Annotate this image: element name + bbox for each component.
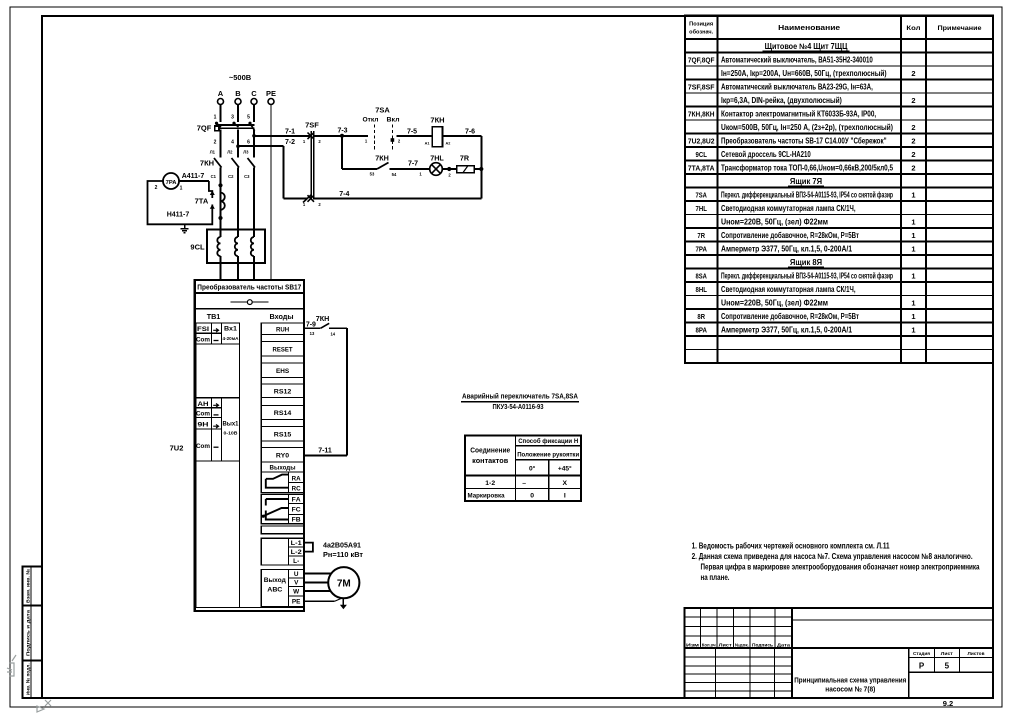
svg-text:0°: 0° [529, 465, 536, 473]
svg-text:Лист: Лист [719, 642, 733, 647]
svg-text:1: 1 [911, 312, 915, 321]
svg-text:2: 2 [911, 69, 915, 78]
svg-text:7-9: 7-9 [306, 322, 316, 329]
svg-text:7М: 7М [337, 579, 351, 590]
svg-text:RS14: RS14 [274, 410, 292, 417]
svg-text:А: А [218, 89, 224, 98]
svg-text:№док.: №док. [735, 642, 749, 647]
svg-text:Com: Com [196, 336, 211, 343]
svg-text:1: 1 [911, 217, 915, 226]
svg-text:–: – [522, 480, 526, 487]
svg-text:1: 1 [911, 244, 915, 253]
svg-text:Стадия: Стадия [913, 651, 930, 657]
svg-text:контактов: контактов [472, 458, 509, 465]
svg-text:2: 2 [911, 150, 915, 159]
svg-text:L-: L- [293, 558, 299, 565]
svg-text:С1: С1 [211, 174, 217, 179]
svg-text:В: В [235, 89, 241, 98]
svg-text:обознач.: обознач. [689, 29, 714, 36]
svg-text:7SA: 7SA [375, 106, 390, 115]
svg-text:7КН: 7КН [200, 159, 214, 168]
svg-text:3: 3 [231, 115, 234, 121]
svg-text:насосом № 7(8): насосом № 7(8) [825, 685, 876, 694]
svg-text:Uном=220В, 50Гц, (зел) Ф22м: Uном=220В, 50Гц, (зел) Ф22мм [721, 298, 828, 307]
svg-text:1-2: 1-2 [485, 480, 495, 487]
svg-text:Подпись и дата: Подпись и дата [26, 609, 31, 656]
svg-text:54: 54 [392, 172, 397, 177]
svg-text:Com: Com [196, 443, 211, 450]
svg-text:Соединение: Соединение [470, 448, 510, 455]
svg-text:Листов: Листов [968, 651, 985, 657]
svg-text:1: 1 [303, 139, 306, 144]
svg-text:1: 1 [419, 172, 422, 177]
svg-text:7U2,8U2: 7U2,8U2 [688, 136, 715, 145]
svg-text:А2: А2 [446, 142, 451, 146]
svg-text:7РА: 7РА [166, 180, 178, 186]
svg-text:Выход: Выход [264, 577, 287, 584]
svg-text:2: 2 [911, 163, 915, 172]
svg-text:Маркировка: Маркировка [468, 493, 505, 500]
svg-text:1: 1 [180, 186, 183, 192]
svg-text:Ящик 8Я: Ящик 8Я [790, 258, 823, 267]
svg-text:Светодиодная коммутаторная лам: Светодиодная коммутаторная лампа СК/1Ч, [721, 285, 856, 294]
svg-text:2: 2 [911, 136, 915, 145]
svg-text:6: 6 [247, 140, 250, 146]
svg-text:Изм: Изм [686, 642, 700, 647]
svg-text:Дата: Дата [777, 642, 791, 647]
svg-text:Амперметр Э377, 50Гц, кл.1,5,: Амперметр Э377, 50Гц, кл.1,5, 0-200А/1 [721, 325, 853, 334]
svg-text:Примечание: Примечание [938, 25, 982, 32]
svg-text:7-3: 7-3 [337, 128, 347, 135]
svg-text:7QF: 7QF [197, 124, 212, 133]
svg-text:FВ: FВ [292, 517, 302, 524]
svg-text:FА: FА [292, 497, 302, 504]
svg-text:1: 1 [911, 325, 915, 334]
svg-text:RА: RА [292, 476, 302, 483]
svg-text:9Н: 9Н [198, 422, 210, 429]
svg-text:8SA: 8SA [696, 271, 708, 280]
svg-text:8R: 8R [697, 312, 705, 321]
svg-text:АВС: АВС [267, 587, 282, 594]
svg-text:Принципиальная схема управлени: Принципиальная схема управления [794, 676, 906, 685]
svg-text:8HL: 8HL [696, 285, 708, 294]
svg-text:Позиция: Позиция [689, 22, 713, 28]
svg-text:Uком=500В, 50Гц, Iн=250 А, (2з: Uком=500В, 50Гц, Iн=250 А, (2з+2р), (тре… [721, 123, 893, 132]
svg-text:7-2: 7-2 [285, 139, 295, 146]
svg-text:RS15: RS15 [274, 431, 292, 438]
svg-text:2: 2 [448, 173, 451, 178]
svg-text:7РА: 7РА [696, 244, 708, 253]
svg-text:Л3: Л3 [243, 149, 249, 154]
svg-text:Рн=110 кВт: Рн=110 кВт [323, 552, 364, 559]
svg-text:2: 2 [911, 123, 915, 132]
svg-text:1: 1 [214, 115, 217, 121]
svg-text:L-2: L-2 [291, 549, 303, 556]
svg-text:7-6: 7-6 [465, 129, 475, 136]
svg-text:Входы: Входы [270, 312, 294, 321]
svg-text:Наименование: Наименование [778, 25, 840, 32]
svg-text:7ТА,8ТА: 7ТА,8ТА [688, 163, 715, 172]
svg-text:EHS: EHS [276, 368, 290, 375]
svg-text:RESET: RESET [273, 346, 294, 353]
svg-text:2: 2 [318, 202, 321, 207]
svg-text:С3: С3 [244, 174, 250, 179]
svg-text:4а2В05А91: 4а2В05А91 [323, 543, 361, 550]
svg-text:Х: Х [563, 480, 568, 487]
svg-text:RUН: RUН [276, 326, 289, 333]
svg-text:4: 4 [231, 140, 234, 146]
svg-text:L-1: L-1 [291, 540, 303, 547]
svg-text:7R: 7R [697, 231, 705, 240]
svg-text:2: 2 [911, 96, 915, 105]
svg-text:9CL: 9CL [190, 243, 205, 252]
svg-text:Iн=250А, Iкр=200А, Uн=660В, 50: Iн=250А, Iкр=200А, Uн=660В, 50Гц, (трехп… [721, 69, 887, 78]
svg-text:Р: Р [919, 662, 925, 671]
svg-text:0-10В: 0-10В [224, 431, 238, 436]
svg-text:2: 2 [398, 139, 401, 144]
svg-text:7R: 7R [460, 154, 470, 163]
svg-text:Амперметр Э377, 50Гц, кл.1,5,: Амперметр Э377, 50Гц, кл.1,5, 0-200А/1 [721, 244, 853, 253]
svg-text:7КН,8КН: 7КН,8КН [688, 109, 715, 118]
svg-text:Автоматический выключатель, ВА: Автоматический выключатель, ВА51-35Н2-34… [721, 55, 873, 64]
svg-text:~500В: ~500В [229, 73, 252, 82]
svg-text:RS12: RS12 [274, 388, 292, 395]
svg-text:на плане.: на плане. [701, 573, 730, 582]
svg-text:Сетевой дроссель 9CL-НА210: Сетевой дроссель 9CL-НА210 [721, 150, 811, 159]
svg-text:9.2: 9.2 [943, 699, 953, 708]
svg-text:А1: А1 [425, 142, 430, 146]
svg-text:5: 5 [945, 662, 950, 671]
svg-text:Сопротивление добавочное, R=28: Сопротивление добавочное, R=28кОм, Р=5Вт [721, 231, 859, 240]
svg-text:ТВ1: ТВ1 [207, 312, 221, 321]
svg-text:С2: С2 [228, 174, 234, 179]
svg-text:Аварийный переключатель 7SA,8S: Аварийный переключатель 7SA,8SA [462, 392, 578, 401]
svg-text:А411-7: А411-7 [182, 173, 205, 180]
svg-text:W: W [293, 589, 300, 596]
svg-text:7ТА: 7ТА [195, 197, 209, 206]
svg-text:7-1: 7-1 [285, 129, 295, 136]
svg-text:Лист: Лист [941, 651, 954, 657]
svg-text:Преобразователь частоты SB-17: Преобразователь частоты SB-17 С14.00У "С… [721, 136, 887, 145]
svg-text:53: 53 [370, 172, 375, 177]
svg-text:Кол: Кол [906, 26, 920, 32]
svg-text:7-5: 7-5 [407, 129, 417, 136]
svg-text:2: 2 [318, 139, 321, 144]
svg-text:Первая цифра в маркировке элек: Первая цифра в маркировке электрооборудо… [701, 563, 980, 572]
svg-text:Ящик 7Я: Ящик 7Я [790, 177, 823, 186]
svg-text:FС: FС [292, 507, 302, 514]
svg-text:7КН: 7КН [316, 314, 330, 323]
svg-text:RY0: RY0 [276, 452, 289, 459]
svg-text:7HL: 7HL [696, 204, 708, 213]
svg-text:7-11: 7-11 [318, 448, 332, 455]
svg-text:1: 1 [911, 231, 915, 240]
svg-text:Щитовое №4 Щит 7ЩЦ: Щитовое №4 Щит 7ЩЦ [765, 42, 848, 51]
svg-text:1: 1 [911, 271, 915, 280]
svg-text:7-7: 7-7 [408, 161, 418, 168]
svg-text:С: С [251, 89, 257, 98]
svg-text:Перекл. дифференциальный ВП3-5: Перекл. дифференциальный ВП3-54-А0115-93… [721, 190, 893, 199]
svg-text:7КН: 7КН [430, 116, 444, 125]
svg-text:Трансформатор тока ТОП-0,66,Uн: Трансформатор тока ТОП-0,66,Uном=0,66кВ,… [721, 163, 894, 172]
svg-text:Л1: Л1 [210, 149, 216, 154]
svg-text:1: 1 [911, 190, 915, 199]
svg-text:7SF: 7SF [305, 121, 319, 130]
svg-text:2: 2 [155, 185, 158, 191]
svg-text:2. Данная схема приведена для: 2. Данная схема приведена для насоса №7.… [692, 552, 973, 561]
svg-text:Инв. № подл.: Инв. № подл. [26, 663, 31, 695]
svg-text:8РА: 8РА [696, 325, 708, 334]
svg-text:Iкр=6,3А, DIN-рейка, (двухполю: Iкр=6,3А, DIN-рейка, (двухполюсный) [721, 96, 842, 105]
svg-text:V: V [294, 580, 299, 587]
svg-text:Н411-7: Н411-7 [167, 212, 190, 219]
svg-text:Вх1: Вх1 [224, 327, 238, 333]
svg-text:Преобразователь частоты SB17: Преобразователь частоты SB17 [197, 283, 301, 292]
svg-text:1: 1 [911, 298, 915, 307]
svg-text:Положение рукоятки: Положение рукоятки [517, 452, 579, 459]
svg-text:0: 0 [530, 493, 534, 500]
svg-text:Вкл: Вкл [387, 117, 400, 124]
svg-text:Кол.уч: Кол.уч [702, 642, 716, 647]
svg-text:4-20мА: 4-20мА [223, 336, 239, 341]
svg-text:2: 2 [214, 140, 217, 146]
svg-text:7КН: 7КН [375, 154, 389, 163]
svg-text:Автоматический выключатель ВА2: Автоматический выключатель ВА23-29G, Iн=… [721, 82, 873, 91]
svg-text:Светодиодная коммутаторная лам: Светодиодная коммутаторная лампа СК/1Ч, [721, 204, 856, 213]
svg-text:Способ фиксации Н: Способ фиксации Н [518, 437, 578, 445]
svg-text:I: I [564, 493, 566, 500]
svg-text:Л2: Л2 [227, 149, 233, 154]
svg-text:U: U [294, 571, 299, 578]
svg-text:7SA: 7SA [696, 190, 708, 199]
svg-text:Контактор электромагнитный КТ6: Контактор электромагнитный КТ6033Б-93А, … [721, 109, 876, 118]
svg-text:14: 14 [330, 332, 335, 337]
svg-text:7U2: 7U2 [170, 444, 184, 453]
svg-text:+45°: +45° [558, 465, 572, 473]
svg-text:RС: RС [292, 486, 302, 493]
svg-text:АН: АН [198, 401, 210, 408]
svg-text:13: 13 [310, 331, 315, 336]
svg-text:7HL: 7HL [430, 154, 444, 163]
svg-text:Перекл. дифференциальный ВП3-5: Перекл. дифференциальный ВП3-54-А0115-93… [721, 271, 893, 280]
svg-text:Откл: Откл [363, 117, 379, 124]
svg-text:7-4: 7-4 [339, 191, 349, 198]
svg-text:FSI: FSI [197, 326, 209, 333]
svg-text:Сопротивление добавочное, R=28: Сопротивление добавочное, R=28кОм, Р=5Вт [721, 312, 859, 321]
svg-text:Выходы: Выходы [270, 464, 296, 471]
svg-text:1. Ведомость рабочих чертежей: 1. Ведомость рабочих чертежей основного … [692, 542, 890, 551]
svg-text:РЕ: РЕ [266, 89, 276, 98]
svg-text:РЕ: РЕ [292, 599, 301, 606]
svg-text:Uном=220В, 50Гц, (зел) Ф22м: Uном=220В, 50Гц, (зел) Ф22мм [721, 217, 828, 226]
svg-text:Взам. инв. №: Взам. инв. № [26, 569, 31, 603]
svg-text:5: 5 [247, 115, 250, 121]
svg-text:9CL: 9CL [696, 150, 708, 159]
svg-text:7SF,8SF: 7SF,8SF [688, 82, 715, 91]
svg-text:7QF,8QF: 7QF,8QF [688, 55, 715, 64]
svg-text:Подпись: Подпись [752, 642, 773, 647]
svg-text:1: 1 [365, 139, 368, 144]
svg-text:ПКУ3-54-А0116-93: ПКУ3-54-А0116-93 [493, 402, 544, 411]
svg-text:Com: Com [196, 411, 211, 418]
svg-text:Вых1: Вых1 [223, 422, 240, 428]
